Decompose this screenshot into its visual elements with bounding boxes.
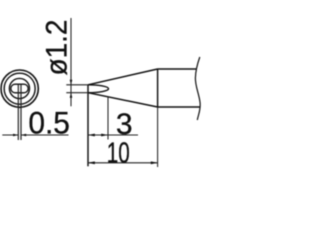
svg-text:ø1.2: ø1.2 <box>41 20 74 76</box>
break line S-curve <box>195 57 200 120</box>
front view bevel oval <box>11 84 28 93</box>
dimension 0.5 right arrow <box>21 134 26 137</box>
slot right line / 0.5 extension <box>20 84 22 140</box>
cone top line <box>88 69 158 85</box>
dimension 3 left arrow <box>88 134 95 137</box>
dimension 10 left arrow <box>88 161 95 164</box>
front view outer circle <box>1 70 38 107</box>
cylinder bottom line <box>158 106 201 108</box>
dia 1.2 upper arrow <box>70 80 73 85</box>
cylinder top line <box>158 68 197 70</box>
dimension 0.5 left line <box>2 134 18 136</box>
bevel ellipse <box>88 85 109 93</box>
dia 1.2 dimension line <box>70 18 72 106</box>
10 right extension line <box>157 107 159 167</box>
cone/cylinder junction line <box>157 69 159 107</box>
dia 1.2 lower arrow <box>70 93 73 98</box>
svg-text:3: 3 <box>116 108 133 141</box>
svg-text:10: 10 <box>107 138 130 170</box>
svg-text:0.5: 0.5 <box>28 105 70 141</box>
dimension 10 line <box>88 162 158 164</box>
dimension 10 right arrow <box>151 161 158 164</box>
cone bottom line <box>88 93 158 107</box>
tip face / common left extension line <box>87 85 89 167</box>
dimension 3 line <box>88 134 138 136</box>
dimension 3 right arrow <box>101 134 108 137</box>
3 right extension line <box>107 98 109 140</box>
slot left line / 0.5 extension <box>17 84 19 140</box>
dia 1.2 top extension line <box>66 84 88 86</box>
dimension 0.5 left arrow <box>13 134 18 137</box>
dia 1.2 bottom extension line <box>66 92 88 94</box>
dimension 0.5 right line <box>21 134 69 136</box>
front view second circle <box>4 73 35 104</box>
front view cone circle <box>9 78 29 98</box>
